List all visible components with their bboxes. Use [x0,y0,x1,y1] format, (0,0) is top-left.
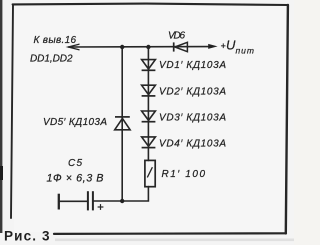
svg-text:R1′ 100: R1′ 100 [162,169,206,180]
svg-text:U: U [226,38,236,53]
svg-text:VD5′ КД103А: VD5′ КД103А [43,117,107,128]
wire: top horizontal bus [69,46,210,48]
wire: diode chain vertical top [147,47,149,161]
border frame bottom [54,232,286,235]
arrow to +Upit [208,44,217,49]
wire: bottom from capacitor to junction [94,200,123,202]
svg-text:пит: пит [236,45,255,55]
resistor R1' [145,160,155,186]
caption smudge line [55,239,294,242]
node: junction bottom wire [120,199,124,203]
diode VD4' [142,137,156,148]
border frame right [286,5,288,233]
diode VD6 [174,42,188,51]
node: junction top wire / diode chain [146,45,150,49]
svg-text:VD3′ КД103А: VD3′ КД103А [159,112,226,123]
svg-text:Рис. 3: Рис. 3 [4,228,50,243]
svg-text:К выв.16: К выв.16 [34,35,77,46]
svg-text:VD1′ КД103А: VD1′ КД103А [159,60,226,71]
diode VD3' [142,111,156,122]
svg-text:VD2′ КД103А: VD2′ КД103А [159,86,226,97]
node: junction top wire / VD5 branch [120,45,124,49]
capacitor C5 [59,191,104,210]
svg-text:VD6: VD6 [168,31,185,42]
svg-text:1Ф × 6,3 В: 1Ф × 6,3 В [47,172,104,184]
svg-text:С5: С5 [68,158,82,169]
border frame top [13,4,288,5]
diode VD1' [142,60,156,71]
wire: left terminal to capacitor [59,200,88,202]
scan edge strip [0,0,2,233]
arrow to K vyv.16 [68,44,79,50]
wire: left vertical (VD5 branch) [121,47,123,201]
diode VD2' [142,85,156,96]
svg-text:VD4′ КД103А: VD4′ КД103А [159,138,226,149]
border frame left [11,5,13,218]
diode VD5' [115,117,130,130]
wire: resistor bottom to corner [122,187,148,201]
svg-text:DD1,DD2: DD1,DD2 [30,54,73,65]
svg-text:+: + [221,41,226,51]
